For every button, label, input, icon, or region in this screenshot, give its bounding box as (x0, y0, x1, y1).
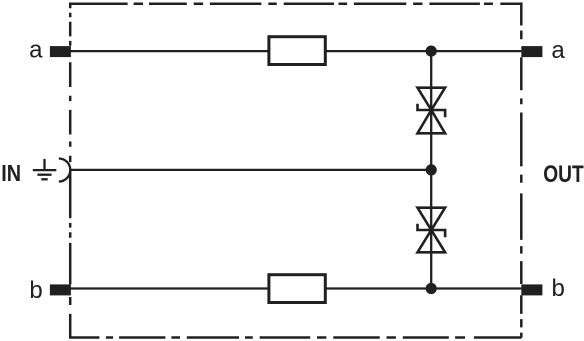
ground symbol (33, 159, 57, 179)
junction node (ground wire / bus) (426, 164, 437, 175)
ground wire (middle line) (70, 169, 431, 171)
vertical bus wire (430, 51, 432, 288)
device enclosure (dash-dot border) (69, 2, 522, 337)
terminal a (input, left) (50, 46, 71, 57)
TVS suppressor diode (top) (418, 88, 446, 134)
junction node (wire b / bus) (426, 283, 437, 294)
resistor (line a) (269, 37, 325, 65)
terminal a (output, right) (521, 46, 542, 57)
svg-text:OUT: OUT (543, 161, 584, 188)
terminal b (output, right) (521, 284, 542, 295)
svg-text:IN: IN (1, 160, 21, 186)
svg-text:b: b (552, 275, 565, 302)
wire b (bottom line) (71, 287, 522, 289)
TVS suppressor diode (bottom) (418, 208, 446, 253)
wire a (top line) (71, 50, 522, 52)
resistor (line b) (269, 275, 325, 303)
border solid segment below shield point (69, 170, 72, 218)
terminal b (input, left) (50, 284, 71, 295)
svg-text:a: a (29, 37, 43, 64)
junction node (wire a / bus) (426, 46, 437, 57)
svg-text:a: a (551, 37, 565, 64)
shield earthing arc (59, 159, 70, 182)
svg-text:b: b (29, 277, 42, 304)
